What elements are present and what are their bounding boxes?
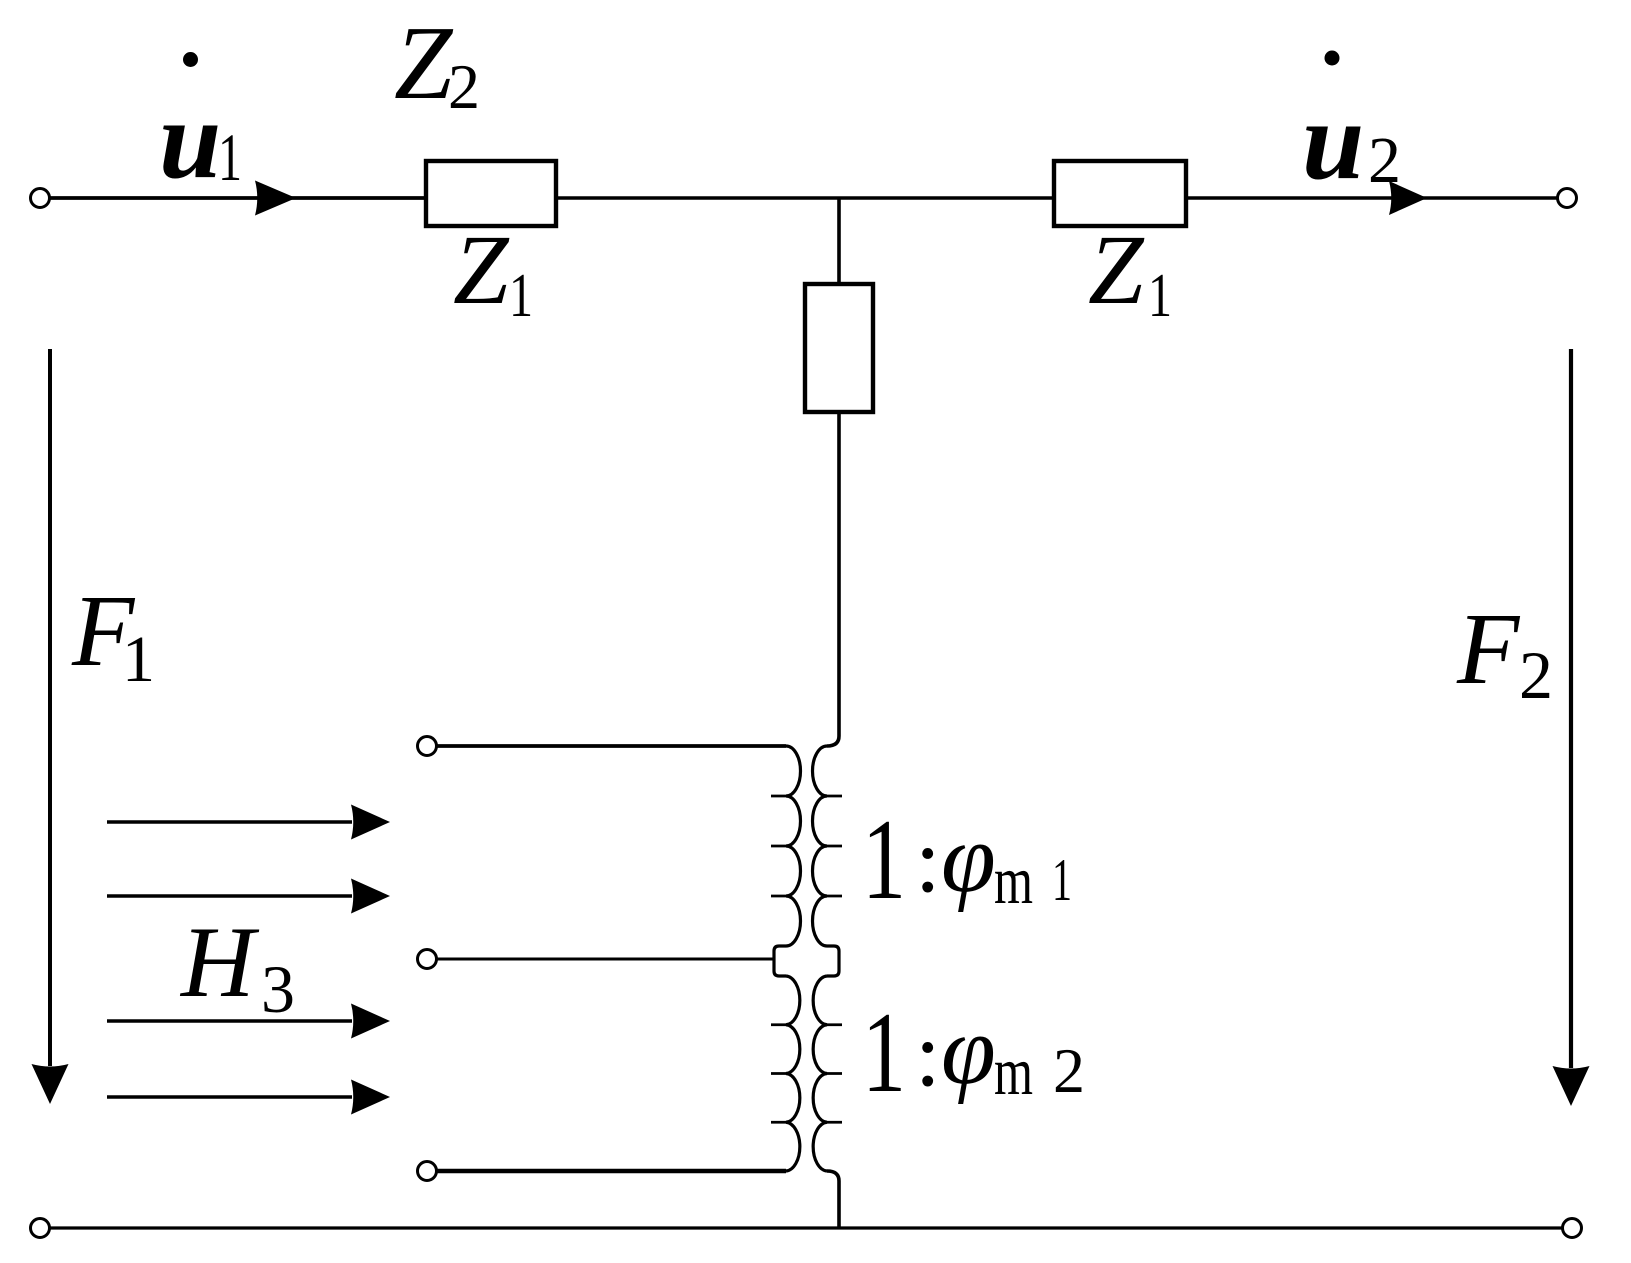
wire: top tap to left winding bbox=[437, 744, 786, 748]
svg-text:Z: Z bbox=[1088, 214, 1145, 325]
node: output terminal (right, top wire) bbox=[1558, 189, 1577, 208]
svg-text::: : bbox=[915, 809, 941, 911]
svg-text:m: m bbox=[994, 842, 1033, 918]
resistor box Z1 (right series impedance) bbox=[1054, 161, 1186, 226]
arrow H (field arrow 3) bbox=[107, 1019, 352, 1022]
arrow F2 (right flux arrow, downward) bbox=[1569, 349, 1573, 1068]
svg-text:H: H bbox=[179, 906, 260, 1019]
wire: input to Z1 box bbox=[50, 196, 427, 200]
node: winding tap terminal top bbox=[418, 737, 437, 756]
arrow H (field arrow 2) bbox=[107, 894, 352, 897]
wire: bottom tap to left winding bbox=[437, 1169, 786, 1173]
node: input terminal (left, top wire) bbox=[31, 189, 50, 208]
current arrow u1 on wire bbox=[255, 181, 296, 216]
wire: bottom bus bbox=[50, 1226, 1562, 1229]
arrow F1 (left flux arrow, downward) bbox=[48, 349, 52, 1066]
svg-text:3: 3 bbox=[261, 951, 295, 1027]
node: winding tap terminal middle bbox=[418, 950, 437, 969]
wire: junction down to shunt box bbox=[837, 198, 841, 286]
svg-text:1: 1 bbox=[1148, 262, 1172, 330]
svg-text:1: 1 bbox=[1052, 847, 1072, 913]
winding: left coil cusp ticks lower bbox=[771, 1025, 786, 1123]
resistor box Z1 (left series impedance) bbox=[426, 161, 556, 226]
winding: right coil middle jog bbox=[827, 946, 839, 976]
svg-text:Z: Z bbox=[453, 214, 510, 325]
winding: right coil lower humps bbox=[813, 976, 827, 1171]
svg-text:1: 1 bbox=[509, 262, 533, 330]
winding: left coil cusp ticks upper bbox=[771, 796, 786, 896]
wire: shunt box down to winding top bbox=[827, 410, 839, 746]
svg-text:m: m bbox=[994, 1033, 1033, 1109]
label u1 (phasor dot) bbox=[183, 52, 198, 67]
winding: left coil upper humps bbox=[786, 746, 801, 946]
svg-text::: : bbox=[915, 1003, 941, 1105]
wire: right box to output terminal bbox=[1186, 196, 1557, 199]
svg-text:2: 2 bbox=[448, 51, 480, 122]
current arrow u2 on wire bbox=[1389, 181, 1427, 215]
svg-text:2: 2 bbox=[1053, 1035, 1085, 1106]
svg-text:2: 2 bbox=[1368, 124, 1401, 197]
shunt impedance box bbox=[805, 284, 873, 412]
winding: left coil lower humps bbox=[786, 976, 800, 1171]
winding: right coil upper humps bbox=[813, 746, 828, 946]
winding: left coil middle jog bbox=[774, 946, 786, 976]
winding: right coil cusp ticks lower bbox=[827, 1025, 842, 1123]
node: winding tap terminal bottom bbox=[418, 1162, 437, 1181]
arrow H (field arrow 4) bbox=[107, 1095, 352, 1098]
node: bottom bus right terminal bbox=[1563, 1219, 1582, 1238]
svg-text:2: 2 bbox=[1519, 637, 1553, 713]
winding: right coil cusp ticks upper bbox=[827, 796, 842, 896]
wire: between series boxes bbox=[556, 196, 1054, 199]
svg-text:F: F bbox=[1456, 593, 1521, 706]
svg-text:1: 1 bbox=[862, 796, 906, 924]
svg-text:Z: Z bbox=[394, 4, 454, 121]
svg-text:φ: φ bbox=[941, 804, 996, 913]
node: bottom bus left terminal bbox=[31, 1219, 50, 1238]
wire: right coil bottom to bus bbox=[827, 1171, 839, 1228]
svg-text:φ: φ bbox=[941, 996, 996, 1105]
svg-text:1: 1 bbox=[122, 623, 155, 696]
svg-text:1: 1 bbox=[862, 989, 906, 1117]
arrow H (field arrow 1) bbox=[107, 820, 352, 823]
svg-text:u: u bbox=[159, 78, 221, 202]
wire: middle tap to left winding bbox=[437, 958, 774, 961]
label u2 (phasor dot) bbox=[1325, 51, 1340, 66]
svg-text:1: 1 bbox=[218, 119, 242, 195]
svg-text:u: u bbox=[1302, 79, 1364, 203]
